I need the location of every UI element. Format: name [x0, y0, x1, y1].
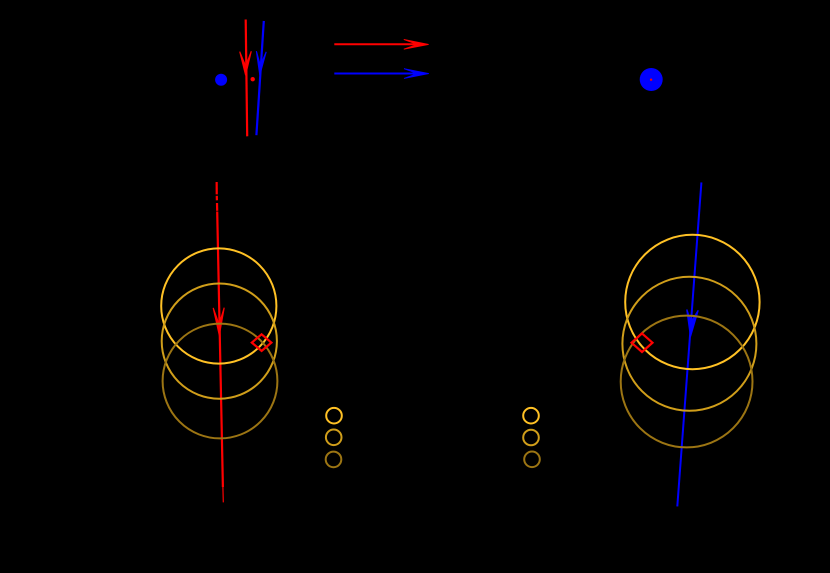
legend small circle L2a (medium) [326, 430, 342, 446]
wavefront circle W2a (medium) [162, 284, 277, 399]
arrowhead red trajectory [213, 308, 224, 336]
arrowhead blue trajectory [687, 310, 698, 337]
legend small circle L1a (bright) [326, 408, 342, 424]
particle P1 (slow charge, top left) [215, 74, 227, 86]
particle P2 (fast charge, top right) [640, 68, 663, 91]
wire: blue trajectory [677, 182, 701, 506]
velocity arrow v2 (blue horizontal) [334, 73, 417, 75]
marker: red diamond on right figure [632, 333, 653, 352]
wavefront circle W3b (dark) [621, 316, 753, 448]
wavefront circle W1b (bright) [625, 235, 759, 369]
wire: blue slanted shaft (slow charge) [256, 21, 263, 135]
legend small circle L1b (bright) [523, 408, 539, 424]
arrowhead red top [240, 51, 252, 75]
legend small circle L3a (dark) [326, 452, 342, 468]
wire: red trajectory dashes top [216, 182, 218, 194]
legend small circle L2b (medium) [523, 430, 539, 446]
arrowhead blue top [256, 51, 266, 75]
node marker: small red dot near P1 arrows [251, 77, 255, 81]
marker: red diamond on left figure [252, 334, 272, 351]
wavefront circle W1a (bright) [161, 248, 276, 363]
wavefront circle W3a (dark) [163, 324, 278, 439]
velocity arrow v1 (red horizontal) [334, 43, 417, 45]
legend small circle L3b (dark) [524, 452, 540, 468]
node marker: red dot at P2 centre [650, 79, 652, 81]
wavefront circle W2b (medium) [622, 277, 756, 411]
wire: red vertical shaft (slow charge field line) [246, 20, 248, 137]
wire: red trajectory thin tail [222, 487, 224, 502]
wire: red trajectory main [217, 212, 223, 488]
